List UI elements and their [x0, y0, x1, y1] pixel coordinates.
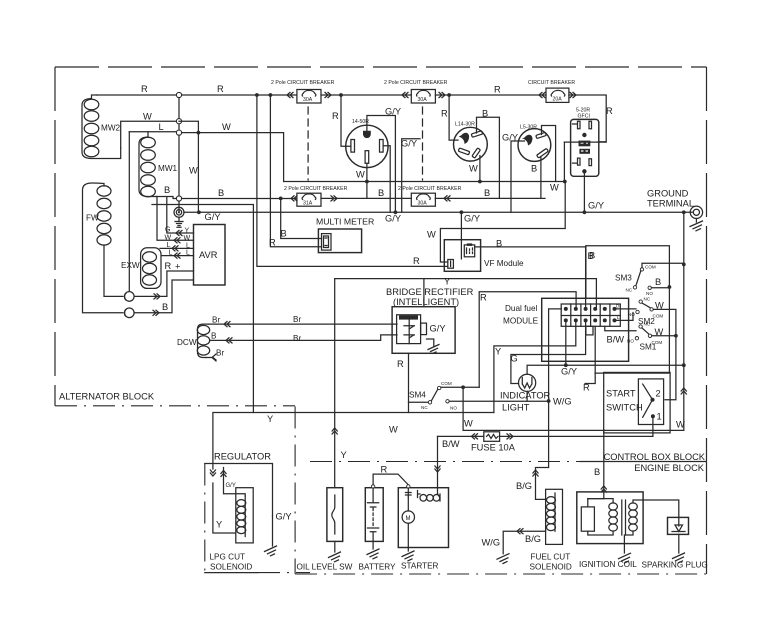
- wire module col4 return R: [585, 326, 595, 383]
- svg-text:BATTERY: BATTERY: [359, 563, 397, 572]
- svg-text:G/Y: G/Y: [385, 214, 401, 224]
- svg-text:SPARKING PLUG: SPARKING PLUG: [642, 561, 708, 570]
- svg-text:B: B: [589, 251, 595, 261]
- 2 Pole circuit breaker 30A (mid): [384, 80, 448, 103]
- DCW mid tap B wire to bridge rectifier: [210, 335, 397, 341]
- svg-text:NO: NO: [450, 406, 457, 411]
- svg-text:Dual fuel: Dual fuel: [505, 304, 537, 313]
- wire SM1 COM to SM2 riser: [652, 335, 676, 337]
- svg-text:R: R: [269, 238, 276, 248]
- svg-text:B: B: [655, 277, 661, 287]
- fuel cut solenoid L2: [530, 489, 572, 571]
- indicator light DS1: [500, 374, 551, 412]
- svg-text:L14-30R: L14-30R: [455, 122, 475, 128]
- svg-text:GROUND: GROUND: [647, 189, 689, 199]
- svg-text:B: B: [281, 229, 287, 239]
- svg-text:CONTROL BOX BLOCK: CONTROL BOX BLOCK: [604, 452, 706, 462]
- alternator/engine block vertical boundary: [294, 407, 296, 575]
- wire module col1 feed to W/G junction: [549, 309, 562, 401]
- wire MW2 top to R bus: [97, 94, 179, 96]
- svg-text:L: L: [159, 122, 164, 132]
- svg-text:G/Y: G/Y: [464, 214, 480, 224]
- node R: [176, 92, 181, 97]
- svg-text:B: B: [496, 239, 502, 249]
- svg-text:BRIDGE RECTIFIER: BRIDGE RECTIFIER: [386, 287, 474, 297]
- svg-text:W: W: [189, 166, 198, 176]
- svg-text:FW: FW: [86, 214, 99, 223]
- svg-text:R: R: [583, 383, 590, 393]
- svg-text:R: R: [441, 109, 448, 119]
- svg-text:ALTERNATOR BLOCK: ALTERNATOR BLOCK: [59, 392, 155, 402]
- wire R from bridge to SM4: [408, 353, 410, 412]
- wire spark plug ground: [673, 553, 685, 563]
- svg-text:W: W: [550, 183, 559, 193]
- svg-text:R: R: [606, 106, 613, 116]
- wire W/G ground to fuel cut: [503, 531, 545, 554]
- wire start switch 1 to fuse line: [652, 416, 654, 436]
- svg-text:W: W: [427, 230, 436, 240]
- svg-text:W/G: W/G: [482, 538, 501, 548]
- switch SM2: [628, 297, 664, 327]
- wire module col6 row1 to SM2 NO: [617, 308, 637, 310]
- wire R to meter: [270, 95, 321, 247]
- coil FW: [83, 183, 124, 313]
- wire W from L5-30R top: [542, 126, 556, 182]
- switch SM3: [615, 265, 656, 297]
- wire R battery to starter: [373, 474, 408, 485]
- svg-text:SOLENOID: SOLENOID: [530, 563, 572, 572]
- svg-text:B/W: B/W: [442, 439, 460, 449]
- svg-text:2 Pole CIRCUIT BREAKER: 2 Pole CIRCUIT BREAKER: [398, 186, 462, 192]
- svg-text:W: W: [389, 425, 398, 435]
- svg-text:B: B: [484, 188, 490, 198]
- wire W line: [284, 181, 566, 183]
- start switch S1: [604, 372, 670, 433]
- svg-text:B: B: [482, 109, 488, 119]
- svg-text:G/Y: G/Y: [588, 201, 604, 211]
- wire B bus from node to 31A breaker: [182, 198, 297, 200]
- wire brush2 B to AVR: [134, 280, 193, 313]
- alternator ground terminal (double circle): [174, 207, 184, 227]
- frame right dashed: [706, 67, 708, 574]
- wire MW1-B line to AVR area (Y feed down): [152, 205, 253, 413]
- 2 Pole circuit breaker 30A (left): [271, 80, 335, 103]
- junction R to L14-30R: [447, 93, 451, 97]
- wire W line to start switch area: [463, 429, 684, 431]
- svg-text:2 Pole CIRCUIT BREAKER: 2 Pole CIRCUIT BREAKER: [384, 80, 448, 86]
- wire B from L14-30R top: [477, 117, 500, 198]
- switch SM4: [409, 381, 457, 411]
- svg-text:SM4: SM4: [409, 391, 426, 400]
- wire node column: [178, 95, 180, 212]
- svg-text:M: M: [406, 516, 411, 522]
- wire ignition coil to ground: [619, 553, 631, 563]
- wire G/Y drop to VF connector: [460, 212, 462, 259]
- node W: [176, 119, 181, 124]
- svg-text:TERMINAL: TERMINAL: [647, 199, 694, 209]
- svg-text:L: L: [186, 250, 190, 257]
- svg-text:W: W: [165, 235, 172, 242]
- circuit breaker 20A: [528, 80, 575, 103]
- dashed link breaker1: [307, 107, 309, 180]
- svg-text:G/Y: G/Y: [276, 512, 292, 522]
- svg-text:B/G: B/G: [525, 534, 541, 544]
- brush lower: [125, 308, 135, 318]
- svg-text:COM: COM: [645, 265, 656, 270]
- wire junction down to W line: [462, 387, 464, 430]
- svg-text:G/Y: G/Y: [561, 367, 577, 377]
- svg-text:20A: 20A: [553, 97, 563, 103]
- junction R to 14-50R: [339, 93, 343, 97]
- AVR input G: [167, 198, 194, 233]
- regulator block box: [205, 464, 273, 517]
- svg-text:Br: Br: [293, 334, 301, 343]
- svg-text:NC: NC: [421, 405, 428, 410]
- svg-text:MW2: MW2: [101, 124, 121, 133]
- wire W from L14-30R bottom: [479, 156, 481, 182]
- svg-text:NC: NC: [644, 297, 651, 302]
- wire SM3 COM up and right to ground drop: [642, 263, 684, 268]
- DCW bottom tap Br stub: [206, 358, 216, 361]
- svg-text:G/Y: G/Y: [385, 107, 401, 117]
- svg-text:B: B: [531, 164, 537, 174]
- svg-text:L: L: [617, 315, 620, 320]
- svg-text:R: R: [217, 84, 224, 94]
- wire SM4 NC stub: [409, 401, 429, 403]
- svg-text:SWITCH: SWITCH: [606, 403, 643, 413]
- svg-text:B: B: [162, 302, 168, 312]
- svg-text:W: W: [464, 419, 473, 429]
- wire W/L line from node to receptacle area: [179, 121, 198, 132]
- svg-text:NC: NC: [644, 322, 651, 327]
- wire ignition to spark plug: [643, 500, 679, 517]
- wire ground bus drop to control area: [683, 212, 685, 429]
- svg-text:W: W: [469, 164, 478, 174]
- wire battery to ground: [372, 541, 374, 549]
- wire G/Y from 14-50R top pin: [367, 116, 396, 213]
- svg-text:2 Pole CIRCUIT BREAKER: 2 Pole CIRCUIT BREAKER: [271, 80, 335, 86]
- wire G/Y bus from alternator terminal to ground terminal: [184, 211, 692, 213]
- svg-text:G/Y: G/Y: [205, 212, 221, 222]
- svg-text:DCW: DCW: [177, 338, 197, 347]
- wire GFCI mid horizontal: [564, 141, 606, 143]
- svg-text:R: R: [381, 465, 388, 475]
- svg-text:G/Y: G/Y: [401, 139, 417, 149]
- svg-text:NO: NO: [628, 312, 635, 317]
- svg-text:OIL LEVEL SW: OIL LEVEL SW: [297, 563, 353, 572]
- wire L-line drop to brush: [128, 132, 130, 292]
- svg-text:R: R: [332, 111, 339, 121]
- node B: [176, 196, 181, 201]
- switch SM1: [627, 322, 664, 352]
- junction R to meter: [255, 93, 259, 97]
- svg-text:G/Y: G/Y: [502, 133, 518, 143]
- svg-text:NC: NC: [626, 288, 633, 293]
- svg-text:EXW: EXW: [121, 261, 140, 270]
- AVR box: [194, 225, 226, 286]
- svg-text:L: L: [186, 243, 190, 250]
- battery BT1: [359, 485, 397, 572]
- svg-text:SM1: SM1: [640, 343, 657, 352]
- wire Y drop from module col2 return: [494, 320, 576, 412]
- control box / engine block boundary: [310, 461, 580, 463]
- svg-text:FUSE 10A: FUSE 10A: [471, 443, 516, 453]
- wire R riser SM4-COM to module col2: [479, 292, 576, 388]
- svg-text:MW1: MW1: [158, 164, 178, 173]
- svg-text:Y: Y: [185, 228, 190, 235]
- wire B into ignition coil: [603, 430, 605, 499]
- wire G/Y arrow into LPG solenoid: [224, 468, 246, 497]
- svg-text:R: R: [480, 293, 487, 303]
- AVR input W: [157, 197, 194, 241]
- coil EXW: [121, 248, 161, 289]
- svg-text:R: R: [397, 359, 404, 369]
- svg-text:W/G: W/G: [553, 397, 572, 407]
- DCW top tap Br wire to bridge rectifier: [209, 323, 398, 325]
- wire W/G junction down to fuel cut: [536, 401, 549, 499]
- svg-text:2: 2: [656, 389, 661, 399]
- svg-text:1: 1: [657, 412, 662, 422]
- svg-text:Y: Y: [341, 450, 347, 460]
- svg-text:W: W: [222, 122, 231, 132]
- svg-text:2 Pole CIRCUIT BREAKER: 2 Pole CIRCUIT BREAKER: [284, 186, 348, 192]
- wire R drop to 14-50R: [341, 95, 351, 146]
- AVR input L lower: [162, 255, 194, 257]
- svg-text:B: B: [164, 185, 170, 195]
- svg-text:G/Y: G/Y: [226, 483, 236, 489]
- svg-text:(INTELLIGENT): (INTELLIGENT): [393, 297, 459, 307]
- wire MW2 W outlet: [121, 121, 179, 148]
- svg-text:B/G: B/G: [516, 481, 532, 491]
- wire Y drop to oil level switch: [334, 279, 336, 488]
- wire GFCI bottom to G/Y bus: [583, 173, 585, 212]
- wire between lower breakers B: [321, 197, 411, 199]
- svg-text:31A: 31A: [303, 201, 313, 207]
- wire brush1 to AVR R+: [134, 271, 193, 296]
- wire long W/Y line to regulator: [213, 413, 494, 470]
- wire MW1 bottom B to node: [156, 197, 176, 199]
- svg-text:Y: Y: [444, 277, 450, 287]
- svg-text:VF Module: VF Module: [484, 259, 524, 268]
- svg-text:R: R: [494, 85, 501, 95]
- svg-text:Y: Y: [495, 347, 501, 357]
- frame top dashed: [55, 66, 707, 68]
- svg-text:B: B: [218, 188, 224, 198]
- svg-text:NO: NO: [627, 339, 634, 344]
- svg-text:LPG CUT: LPG CUT: [210, 553, 246, 562]
- svg-text:B/W: B/W: [607, 335, 625, 345]
- svg-text:W: W: [356, 170, 365, 180]
- fuse F1 10A: [438, 432, 653, 453]
- LPG cut solenoid L1: [210, 488, 254, 572]
- coil MW2: [82, 95, 121, 159]
- AVR input L upper: [160, 247, 194, 249]
- wire B from L5-30R bottom: [540, 157, 542, 199]
- wire from 14-50R right slot: [383, 146, 390, 213]
- sparking plug E1: [642, 517, 708, 569]
- svg-text:L: L: [169, 250, 173, 257]
- wire R bus: [182, 95, 607, 142]
- wire Y into LPG solenoid: [213, 483, 236, 533]
- svg-text:R: R: [165, 261, 172, 271]
- svg-text:DI: DI: [616, 304, 621, 309]
- svg-text:Br: Br: [293, 315, 301, 324]
- bridge rectifier U1: [386, 287, 474, 353]
- svg-text:NO: NO: [646, 291, 653, 296]
- svg-text:CIRCUIT BREAKER: CIRCUIT BREAKER: [528, 80, 575, 86]
- wire SM4 COM to junction: [441, 386, 479, 388]
- wire B from VF to dual fuel module: [475, 247, 586, 309]
- svg-text:W: W: [143, 112, 152, 122]
- svg-text:B: B: [594, 467, 600, 477]
- alternator block bottom boundary: [55, 405, 295, 407]
- dual fuel module J1: [503, 298, 629, 361]
- svg-text:W: W: [184, 235, 191, 242]
- bottom boundary chain: [295, 573, 706, 575]
- svg-text:REGULATOR: REGULATOR: [214, 452, 271, 462]
- svg-text:30A: 30A: [303, 97, 313, 103]
- svg-text:COM: COM: [441, 381, 452, 386]
- svg-text:ENGINE BLOCK: ENGINE BLOCK: [634, 463, 705, 473]
- wire starter to ground: [407, 548, 409, 552]
- coil MW1: [139, 132, 178, 197]
- svg-text:INDICATOR: INDICATOR: [500, 391, 551, 401]
- svg-text:Br: Br: [216, 349, 224, 358]
- wire W return to VF module: [440, 182, 565, 263]
- wire B to meter: [281, 198, 322, 238]
- svg-text:B: B: [378, 188, 384, 198]
- wire module col6 row2 stub: [617, 313, 634, 321]
- wire G/Y ground inside regulator: [272, 516, 274, 546]
- svg-text:R: R: [413, 256, 420, 266]
- svg-text:30A: 30A: [418, 201, 428, 207]
- wire GFCI left down to W junction: [563, 142, 565, 181]
- svg-text:START: START: [606, 389, 636, 399]
- wire lower breaker right to B drops: [435, 197, 545, 199]
- node L: [176, 130, 181, 135]
- wire W drop from L-line to alternator gnd line: [197, 133, 199, 213]
- svg-text:GFCI: GFCI: [578, 114, 590, 120]
- svg-text:G: G: [165, 227, 170, 234]
- wire R feed to VF: [257, 95, 448, 266]
- wire G drop from module col3 return to indicator: [511, 320, 586, 383]
- svg-text:Y: Y: [267, 414, 273, 424]
- wire module col5 return B/W to SM1: [605, 326, 636, 331]
- wire G/Y drop from module col1: [565, 320, 567, 365]
- wire indicator bottom to W/G line: [526, 391, 528, 401]
- wire oil level to ground: [334, 541, 336, 552]
- 2 Pole circuit breaker 31A: [284, 186, 348, 207]
- svg-text:L: L: [167, 242, 171, 249]
- wire indicator top to G/Y line: [527, 365, 684, 374]
- svg-text:30A: 30A: [418, 97, 428, 103]
- wire W from 14-50R bottom: [366, 163, 368, 198]
- svg-text:FUEL CUT: FUEL CUT: [531, 553, 571, 562]
- wire SM4-NO to W/G junction: [449, 400, 548, 402]
- oil level switch S2: [297, 488, 353, 572]
- svg-text:SOLENOID: SOLENOID: [210, 563, 252, 572]
- SM box outline: [586, 246, 670, 373]
- brush upper: [125, 292, 135, 302]
- svg-text:SM3: SM3: [615, 274, 632, 283]
- frame left dashed: [54, 67, 56, 406]
- breaker wire arrows: [287, 92, 293, 97]
- svg-text:W: W: [676, 420, 685, 430]
- wire R to L14-30R: [449, 95, 458, 140]
- coil DCW: [177, 324, 210, 357]
- wire Y into bridge: [423, 279, 425, 307]
- wire G/Y from L5-30R left: [511, 141, 525, 212]
- svg-text:G/Y: G/Y: [430, 324, 446, 334]
- starter M1: [398, 485, 448, 571]
- svg-text:Br: Br: [212, 316, 220, 325]
- svg-text:AVR: AVR: [199, 250, 218, 260]
- dashed link breaker2: [422, 107, 424, 180]
- svg-text:MULTI METER: MULTI METER: [316, 217, 374, 227]
- svg-text:R: R: [141, 84, 148, 94]
- svg-text:MODULE: MODULE: [503, 317, 539, 326]
- svg-text:+: +: [175, 262, 180, 272]
- svg-text:B: B: [211, 331, 217, 340]
- wire G/Y corner (L14-30R feed): [402, 139, 420, 213]
- svg-text:STARTER: STARTER: [401, 562, 439, 571]
- control box top edge: [335, 279, 597, 309]
- wire SM3 NO to box edge: [651, 287, 669, 289]
- svg-text:LIGHT: LIGHT: [502, 403, 530, 413]
- 2 Pole circuit breaker 30A lower: [398, 186, 462, 207]
- svg-text:G: G: [511, 354, 518, 364]
- wire B/W drop to starter: [437, 436, 439, 493]
- svg-text:Y: Y: [216, 520, 222, 530]
- ignition coil T1: [577, 492, 643, 569]
- wire SM2 COM to start switch 2: [653, 309, 676, 399]
